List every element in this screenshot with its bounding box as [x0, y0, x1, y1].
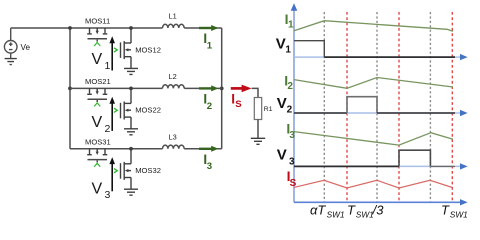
- svg-text:3: 3: [207, 161, 212, 172]
- svg-text:MOS31: MOS31: [85, 138, 111, 147]
- transistor MOS32 (shunt vertical MOSFET): [121, 149, 132, 189]
- svg-text:V: V: [276, 35, 286, 52]
- svg-text:3: 3: [105, 189, 111, 201]
- svg-text:L2: L2: [169, 72, 177, 81]
- svg-text:MOS11: MOS11: [85, 17, 110, 26]
- node MOS12 drain: [129, 26, 133, 30]
- svg-text:R1: R1: [264, 106, 273, 113]
- voltage arrow V2: [111, 103, 113, 131]
- transistor MOS21 (series horizontal MOSFET): [87, 88, 107, 94]
- node left bus / row1: [68, 26, 72, 30]
- svg-text:T: T: [347, 203, 356, 218]
- wire row3 to bus: [184, 148, 222, 150]
- axis time (blue bottom): [294, 201, 461, 203]
- current arrow I1 (green): [199, 27, 212, 29]
- wire row3 horizontal: [70, 148, 163, 150]
- axis V1 (blue horizontal): [294, 56, 461, 58]
- wire row1 to bus: [184, 27, 222, 29]
- gate marker MOS11 (green): [94, 42, 100, 46]
- voltage arrow V1: [111, 43, 113, 71]
- svg-text:1: 1: [288, 20, 294, 31]
- svg-text:1: 1: [207, 40, 213, 51]
- svg-text:2: 2: [287, 81, 293, 92]
- svg-text:SW1: SW1: [327, 210, 345, 220]
- svg-text:/3: /3: [372, 203, 385, 218]
- wire left bus: [69, 28, 71, 149]
- svg-text:1: 1: [285, 45, 291, 56]
- inductor L3: [163, 145, 185, 149]
- ground (R1): [251, 138, 265, 144]
- svg-text:MOS32: MOS32: [135, 166, 161, 175]
- svg-text:2: 2: [287, 104, 293, 115]
- voltage arrow V3: [111, 163, 113, 191]
- current arrow I3 (green): [199, 148, 212, 150]
- node MOS32 drain: [129, 147, 133, 151]
- waveform I3 (inductor current): [294, 132, 453, 146]
- gridline 1T/3 (red dashed): [346, 12, 348, 202]
- voltage source Ve: [4, 28, 17, 58]
- svg-text:MOS12: MOS12: [135, 45, 161, 54]
- ground (MOS22 source): [124, 129, 138, 135]
- svg-text:αT: αT: [310, 203, 326, 218]
- svg-text:3: 3: [289, 157, 295, 168]
- svg-text:3: 3: [289, 130, 295, 141]
- svg-text:V: V: [92, 51, 103, 68]
- gridline alpha-T + 0T/3 (gray dashed): [323, 12, 325, 202]
- waveform V1 (gate pulse): [294, 41, 324, 57]
- wire row2 to bus: [184, 87, 222, 89]
- waveform I2 (inductor current): [294, 78, 453, 89]
- transistor MOS11 (series horizontal MOSFET): [87, 28, 107, 34]
- svg-text:Ve: Ve: [21, 43, 31, 52]
- wire IS to R1: [252, 88, 258, 97]
- node right bus / row2: [220, 87, 224, 91]
- node left bus / row2: [68, 87, 72, 91]
- gate marker MOS12 (green): [114, 48, 117, 52]
- svg-text:1: 1: [105, 60, 111, 72]
- waveform V2 (gate pulse): [294, 112, 347, 114]
- svg-text:V: V: [277, 95, 287, 112]
- svg-text:SW1: SW1: [356, 210, 374, 220]
- gate marker MOS22 (green): [114, 108, 117, 112]
- ground (MOS32 source): [124, 189, 138, 195]
- svg-text:MOS21: MOS21: [85, 77, 111, 86]
- svg-text:S: S: [235, 99, 242, 110]
- transistor MOS31 (series horizontal MOSFET): [87, 149, 107, 155]
- inductor L2: [163, 85, 185, 89]
- svg-text:MOS22: MOS22: [135, 106, 161, 115]
- svg-text:2: 2: [105, 123, 111, 135]
- axis vertical (blue): [293, 10, 295, 203]
- gridline alpha-T + 2T/3 (gray dashed): [429, 12, 431, 202]
- resistor R1: [254, 98, 261, 120]
- gate marker MOS31 (green): [94, 163, 100, 167]
- svg-text:SW1: SW1: [450, 210, 468, 220]
- transistor MOS12 (shunt vertical MOSFET): [121, 28, 132, 68]
- axis V2 (blue horizontal): [294, 112, 461, 114]
- gridline 2T/3 (red dashed): [398, 12, 400, 202]
- axis V3 (blue horizontal): [294, 165, 461, 167]
- gate marker MOS32 (green): [114, 169, 117, 173]
- svg-text:S: S: [290, 178, 297, 189]
- svg-text:V: V: [92, 114, 103, 131]
- waveform V3 (gate pulse): [294, 165, 399, 167]
- svg-text:L3: L3: [169, 133, 177, 142]
- waveform IS (sum current, red): [294, 180, 452, 188]
- wire right bus: [221, 28, 223, 149]
- waveform I1 (inductor current): [294, 21, 453, 32]
- transistor MOS22 (shunt vertical MOSFET): [121, 88, 132, 128]
- wire row2 horizontal: [70, 87, 163, 89]
- gate marker MOS21 (green): [94, 103, 100, 107]
- svg-text:2: 2: [207, 101, 212, 112]
- node MOS22 drain: [129, 87, 133, 91]
- ground (MOS12 source): [124, 68, 138, 74]
- svg-text:T: T: [441, 203, 450, 218]
- svg-text:L1: L1: [169, 12, 177, 21]
- current arrow I2 (green): [199, 87, 212, 89]
- wire top rail from Ve: [11, 27, 163, 29]
- current arrow IS (red): [231, 87, 242, 90]
- ground (source Ve): [5, 59, 17, 65]
- gridline 3T/3 (red dashed): [451, 12, 453, 202]
- inductor L1: [163, 24, 185, 28]
- svg-text:V: V: [92, 180, 103, 197]
- gridline alpha-T + 1T/3 (gray dashed): [376, 12, 378, 202]
- svg-text:V: V: [277, 146, 287, 163]
- wire R1 to ground: [257, 120, 259, 139]
